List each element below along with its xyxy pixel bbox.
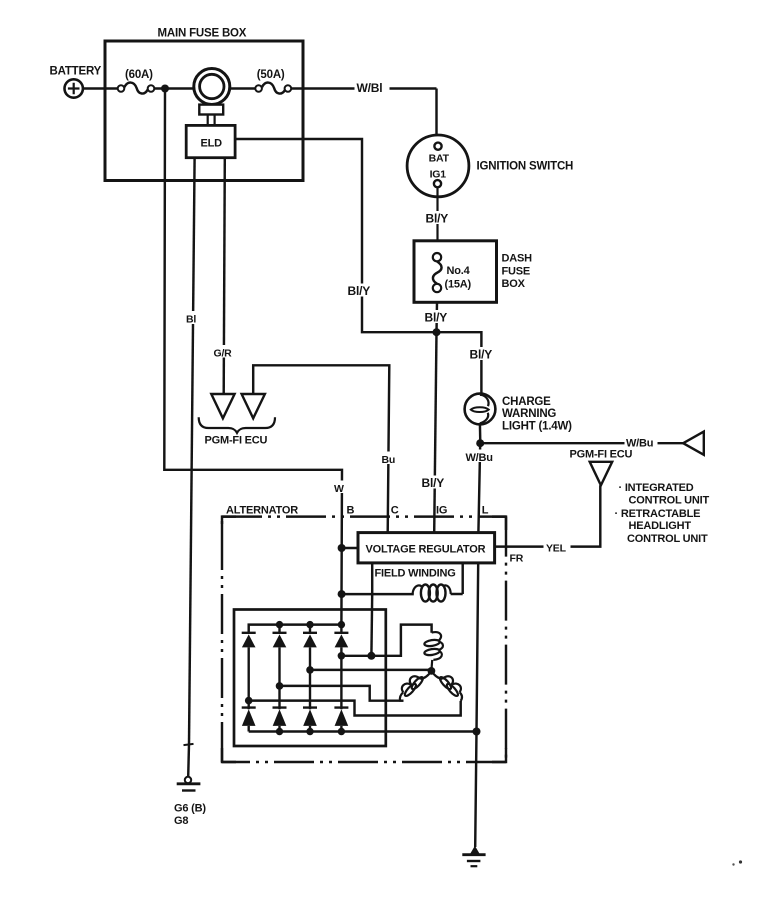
svg-text:L: L <box>482 504 489 516</box>
wire junction to charge warning light <box>437 332 482 394</box>
svg-text:IGNITION SWITCH: IGNITION SWITCH <box>477 161 574 173</box>
diode D4 top <box>334 625 348 656</box>
svg-text:CHARGE: CHARGE <box>502 396 551 408</box>
svg-text:YEL: YEL <box>546 542 567 554</box>
charge warning light bulb <box>465 394 496 425</box>
svg-text:ELD: ELD <box>201 137 223 149</box>
junction dot main feed <box>161 85 169 93</box>
connector arrow W/Bu (to right units) <box>683 432 704 455</box>
fuse No.4 (15A) <box>433 253 442 292</box>
svg-text:(60A): (60A) <box>125 69 153 81</box>
svg-text:FR: FR <box>510 553 524 565</box>
junction node Bl/Y <box>433 328 441 336</box>
svg-text:Bl/Y: Bl/Y <box>470 347 493 361</box>
diode D2 top <box>273 625 287 686</box>
label Bl/Y right of junction <box>468 347 499 361</box>
svg-text:(15A): (15A) <box>445 278 472 290</box>
diode D7 bottom <box>303 670 317 732</box>
svg-text:W/Bu: W/Bu <box>466 452 493 464</box>
svg-text:BATTERY: BATTERY <box>50 66 102 78</box>
svg-text:Bl/Y: Bl/Y <box>425 310 448 324</box>
svg-text:PGM-FI ECU: PGM-FI ECU <box>570 449 633 461</box>
junction dot B wire to regulator <box>338 544 346 552</box>
wire W/Bu to connector arrow <box>480 442 683 444</box>
svg-text:No.4: No.4 <box>447 265 471 277</box>
svg-text:BOX: BOX <box>502 278 526 290</box>
label G/R <box>212 345 236 359</box>
svg-text:B: B <box>347 504 355 516</box>
junction dot B wire to field winding <box>338 590 346 598</box>
field winding coil L1 <box>342 585 463 602</box>
label YEL <box>544 540 571 554</box>
ELD current sensor (double circle) <box>194 69 230 126</box>
label Bl <box>183 311 199 326</box>
diode D3 top <box>303 625 317 670</box>
svg-text:W/Bl: W/Bl <box>357 81 383 95</box>
MAIN FUSE BOX enclosure <box>105 41 303 181</box>
ground (alternator case) <box>462 846 485 866</box>
stator apex node <box>428 667 436 675</box>
wire G/R ELD to PGM-FI ECU <box>224 158 225 394</box>
phase tap col1 to stator right coil <box>249 701 461 716</box>
wire junction down to alternator IG terminal <box>434 332 436 532</box>
svg-text:IG: IG <box>436 504 447 516</box>
fuse (50A) <box>255 83 291 94</box>
svg-text:HEADLIGHT: HEADLIGHT <box>629 520 692 532</box>
stator coil 3 (right slant) <box>431 671 462 701</box>
wire regulator area down to stator tap <box>370 594 373 656</box>
rectifier bottom bus to ground wire <box>249 730 477 732</box>
junction node W/Bu <box>476 439 484 447</box>
stator coil 1 (vertical) <box>424 632 443 671</box>
svg-text:CONTROL UNIT: CONTROL UNIT <box>627 533 708 545</box>
svg-text:G/R: G/R <box>214 347 233 359</box>
svg-text:WARNING: WARNING <box>502 408 556 420</box>
svg-text:DASH: DASH <box>502 253 533 265</box>
wire YEL: regulator FR to ECU triangle <box>495 485 601 546</box>
svg-text:C: C <box>391 504 399 516</box>
svg-text:· RETRACTABLE: · RETRACTABLE <box>615 508 701 520</box>
diode D1 top <box>242 633 256 701</box>
DASH FUSE BOX enclosure <box>414 241 497 302</box>
wire dash fuse to junction <box>435 302 438 332</box>
wire lamp to W/Bu junction <box>479 423 482 443</box>
svg-text:FUSE: FUSE <box>502 265 531 277</box>
diode D8 bottom <box>334 656 348 732</box>
svg-text:ALTERNATOR: ALTERNATOR <box>226 504 298 516</box>
svg-text:Bl/Y: Bl/Y <box>422 476 445 490</box>
label Bl/Y on ELD wire <box>346 284 377 298</box>
svg-text:· INTEGRATED: · INTEGRATED <box>619 482 694 494</box>
wire stub to regulator left <box>342 547 358 549</box>
wire ELD to dash fuse junction (Bl/Y) <box>235 139 433 332</box>
svg-text:MAIN FUSE BOX: MAIN FUSE BOX <box>158 28 247 40</box>
FIELD WINDING label box <box>372 563 463 594</box>
svg-text:(50A): (50A) <box>257 69 285 81</box>
svg-text:FIELD WINDING: FIELD WINDING <box>375 567 456 579</box>
svg-text:LIGHT (1.4W): LIGHT (1.4W) <box>502 420 572 432</box>
svg-text:BAT: BAT <box>429 153 450 165</box>
wire Bu: triangle 2 to alternator C terminal <box>253 365 389 532</box>
label Bl/Y below dash fuse <box>423 310 454 324</box>
label W/Bu arrow <box>625 435 658 449</box>
phase tap col3 to stator apex <box>310 669 431 671</box>
svg-text:Bu: Bu <box>382 454 396 466</box>
rectifier box <box>234 610 386 747</box>
fuse (60A) <box>118 83 155 94</box>
phase tap col4 to stator coil 1 <box>341 625 431 656</box>
ELD unit box <box>186 125 235 157</box>
PGM-FI ECU connector triangle 2 <box>242 394 265 418</box>
PGM-FI ECU triangle right (FR) <box>590 462 613 486</box>
wire fuse 60A to ELD sensor, junction at node <box>154 87 193 89</box>
voltage regulator box U1 <box>358 533 495 563</box>
svg-text:W: W <box>334 483 344 495</box>
alternator enclosure (dash-dot) <box>222 517 506 762</box>
PGM-FI ECU connector triangle 1 <box>211 394 234 418</box>
wire L: junction to regulator and down <box>475 443 480 847</box>
stator coil 2 (left slant) <box>400 671 432 701</box>
ground G6 (B) / G8 <box>177 744 201 791</box>
stray specks bottom right <box>732 863 734 865</box>
text labels layer <box>50 28 710 827</box>
wire W: junction to alternator B terminal <box>164 89 342 625</box>
svg-text:Bl/Y: Bl/Y <box>426 212 449 226</box>
battery B+ terminal <box>65 79 83 97</box>
diode D5 bottom <box>242 701 256 732</box>
wire battery to fuse 60A <box>83 87 118 89</box>
svg-text:G6 (B): G6 (B) <box>174 802 206 814</box>
label W/Bu junction <box>464 450 497 464</box>
label W <box>333 481 348 496</box>
svg-text:W/Bu: W/Bu <box>626 437 653 449</box>
rectifier top bus B+ <box>249 625 342 633</box>
svg-text:G8: G8 <box>174 815 188 827</box>
svg-text:CONTROL UNIT: CONTROL UNIT <box>629 494 710 506</box>
svg-text:VOLTAGE REGULATOR: VOLTAGE REGULATOR <box>366 544 486 556</box>
brace under ECU triangles <box>199 417 275 433</box>
ignition switch <box>407 135 469 253</box>
label Bl/Y above IG <box>420 476 451 490</box>
label Bu <box>380 452 397 466</box>
svg-text:PGM-FI ECU: PGM-FI ECU <box>205 435 268 447</box>
wire W/Bl to ignition switch <box>291 89 436 143</box>
diode D6 bottom <box>273 686 287 732</box>
svg-text:IG1: IG1 <box>430 168 447 180</box>
wire Bl from ELD to ground G6 <box>189 158 195 744</box>
wire ELD sensor to fuse 50A <box>230 87 255 89</box>
ground G6 wire tick <box>184 744 194 745</box>
wire lamp top stub <box>480 393 483 396</box>
svg-text:Bl: Bl <box>186 314 196 326</box>
svg-text:Bl/Y: Bl/Y <box>348 284 371 298</box>
label Bl/Y ignition <box>424 211 455 226</box>
phase tap col2 to stator left coil <box>280 686 404 701</box>
